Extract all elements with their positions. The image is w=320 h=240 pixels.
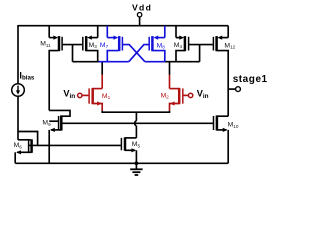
svg-text:Vdd: Vdd (132, 3, 152, 13)
svg-text:stage1: stage1 (233, 74, 268, 85)
